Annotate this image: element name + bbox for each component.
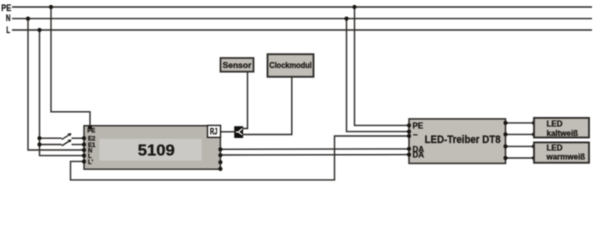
dimmer 5109 inner panel [99, 138, 202, 161]
svg-text:Clockmodul: Clockmodul [269, 61, 312, 70]
svg-text:PE: PE [413, 122, 424, 131]
dimmer 5109 body [84, 126, 220, 170]
pin aux2 (5109 right) [218, 167, 222, 171]
junction L left [37, 28, 41, 32]
svg-text:N: N [6, 13, 11, 23]
wire N tap to LED-Treiber ac1 [347, 19, 410, 132]
svg-text:L': L' [88, 160, 94, 166]
net L rail [12, 29, 592, 31]
pin PE (driver) [407, 123, 411, 127]
wire LED-Treiber to LED kaltweiss minus [506, 133, 535, 135]
pin out2+ (driver right) [503, 144, 507, 148]
svg-text:kaltweiß: kaltweiß [547, 129, 579, 138]
svg-text:LED-Treiber DT8: LED-Treiber DT8 [425, 134, 501, 146]
wire LED-Treiber to LED warmweiss minus [506, 157, 535, 159]
wire LED-Treiber to LED kaltweiss plus [506, 122, 535, 124]
junction N right [344, 17, 348, 21]
wire RJ output to connector [220, 131, 234, 133]
wire E2 right segment to pin [72, 137, 85, 139]
svg-text:~: ~ [413, 131, 418, 140]
pin kaltweiss + [532, 121, 536, 125]
wire N tap to 5109 pin N [28, 19, 84, 150]
wire E2 branch left segment [40, 137, 62, 139]
svg-text:warmweiß: warmweiß [546, 153, 586, 162]
sensor box [221, 58, 254, 72]
svg-text:DA: DA [413, 151, 425, 160]
wire PE tap to 5109 top pin PE [51, 7, 90, 126]
pushbutton S1 lever [62, 133, 72, 139]
LED warmweiss box [534, 142, 589, 162]
net N rail [12, 18, 592, 20]
net PE rail [12, 6, 592, 8]
pin warmweiss - [532, 156, 536, 160]
svg-text:LED: LED [547, 119, 563, 128]
LED kaltweiss box [534, 118, 589, 138]
pin ac2 (driver) [407, 134, 411, 138]
pin out2- (driver right) [503, 156, 507, 160]
junction PE right [352, 5, 356, 9]
junction L to E2 [37, 136, 41, 140]
svg-text:RJ: RJ [210, 127, 218, 137]
pin DA1 (5109 right) [218, 147, 222, 151]
pin E1 [82, 142, 86, 146]
svg-text:L: L [6, 25, 10, 35]
pin out1- (driver right) [503, 132, 507, 136]
pin warmweiss + [532, 144, 536, 148]
wire clockmodul to connector [243, 77, 292, 135]
pin DA2 (driver) [407, 153, 411, 157]
svg-text:PE: PE [1, 3, 11, 13]
svg-text:5109: 5109 [138, 143, 175, 160]
pin kaltweiss - [532, 132, 536, 136]
pin L (5109) [82, 154, 86, 158]
junction L to E1 [37, 142, 41, 146]
pin E2 [82, 136, 86, 140]
RJ socket box [208, 125, 221, 137]
wire DALI DA2 from 5109 to LED-Treiber [220, 154, 409, 156]
svg-text:LED: LED [547, 144, 563, 153]
svg-text:E2: E2 [88, 137, 96, 143]
wire PE tap to LED-Treiber pin PE [355, 7, 410, 125]
pin PE top (5109) [88, 125, 92, 129]
wire L' from 5109 to LED-Treiber ac2 [71, 136, 410, 180]
pin aux1 (5109 right) [218, 160, 222, 164]
wire LED-Treiber to LED warmweiss plus [506, 145, 535, 147]
junction N left [26, 17, 30, 21]
svg-text:Sensor: Sensor [223, 60, 253, 70]
pin DA2 (5109 right) [218, 153, 222, 157]
wire E1 branch left segment [40, 144, 62, 146]
wire E1 right segment to pin [72, 144, 85, 146]
LED driver DT8 box [409, 119, 506, 163]
connector plug symbol [234, 126, 243, 138]
svg-text:PE: PE [87, 128, 95, 134]
clock module box [268, 54, 314, 77]
wire L tap down to 5109 pin L [40, 30, 85, 156]
wire sensor to connector [243, 72, 247, 129]
wire DALI DA1 from 5109 to LED-Treiber [220, 148, 409, 150]
junction PE left [49, 5, 53, 9]
pushbutton S2 lever [62, 140, 72, 146]
pin L' [82, 159, 86, 163]
pin ac1 (driver) [407, 130, 411, 134]
pin N (5109) [82, 148, 86, 152]
pin out1+ (driver right) [503, 121, 507, 125]
pin DA1 (driver) [407, 147, 411, 151]
